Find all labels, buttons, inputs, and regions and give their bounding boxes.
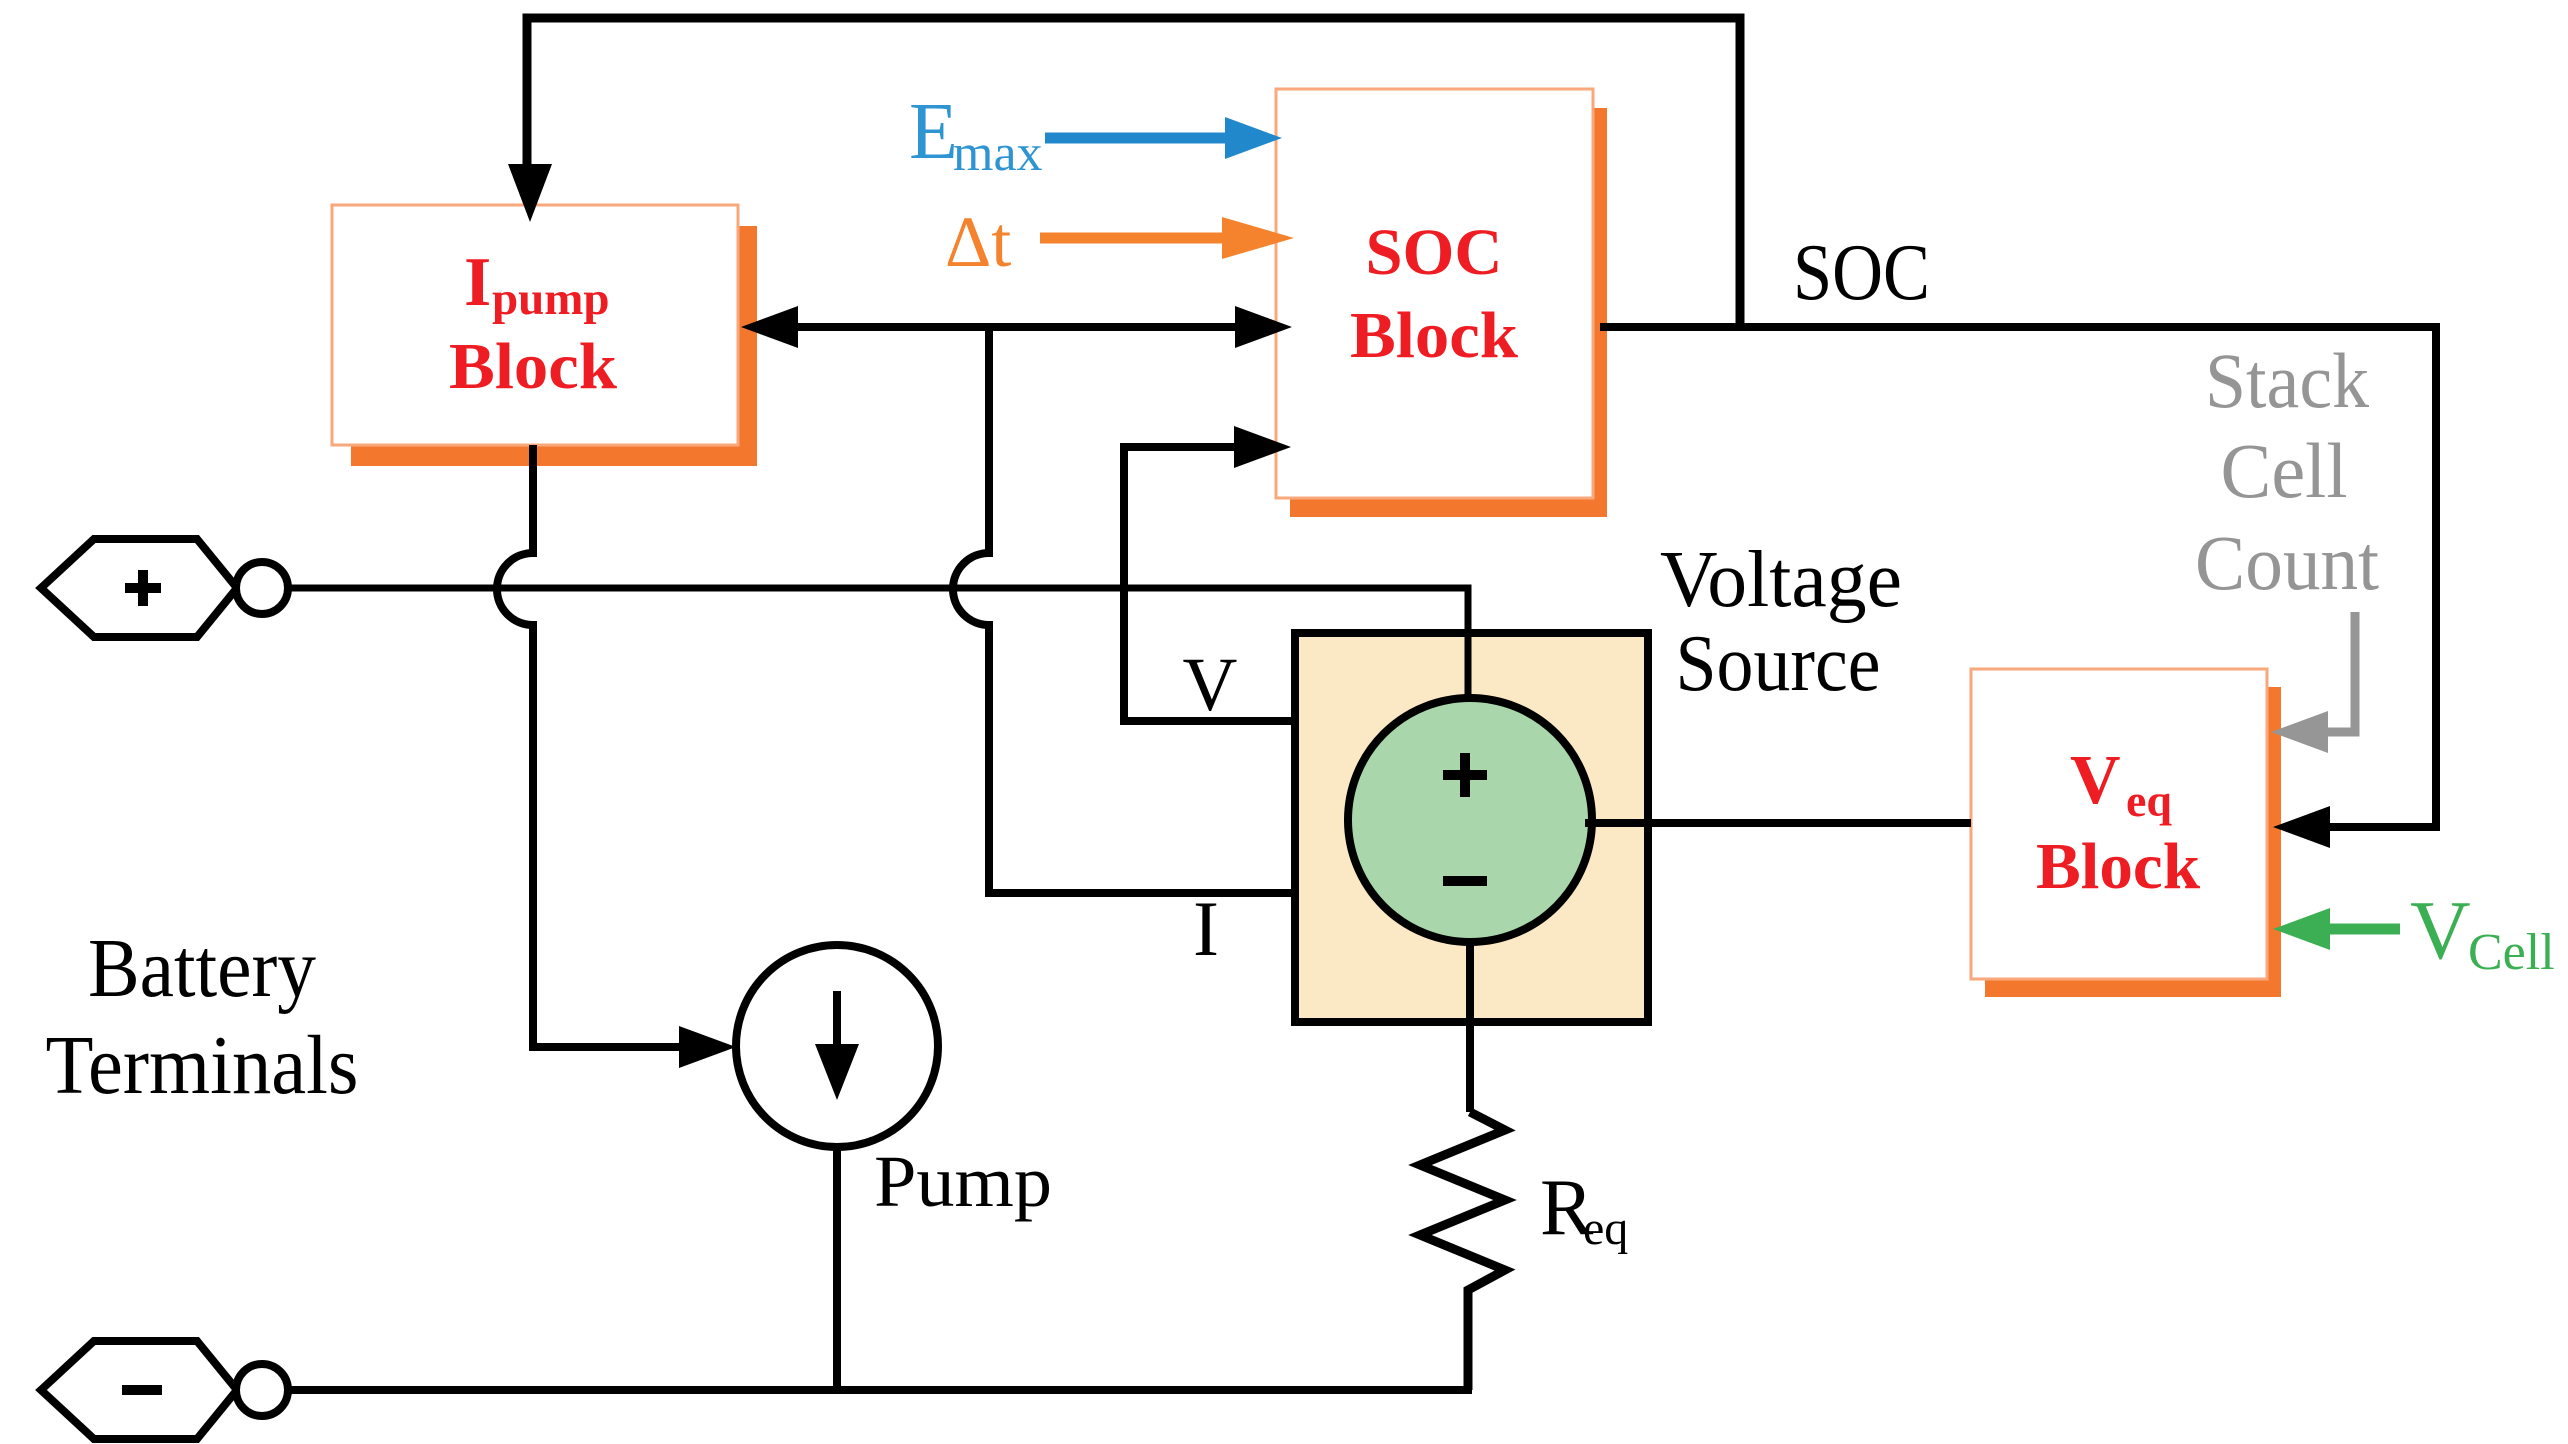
svg-text:Terminals: Terminals [46,1019,359,1112]
svg-text:V: V [2070,742,2121,819]
svg-text:I: I [464,244,491,321]
voltage source: box [1295,633,1648,1022]
port -: minus sign [122,1385,162,1395]
voltage source: plus sign [1443,753,1487,797]
arrowhead: into pump left side [679,1026,736,1068]
wire: SOC output to Veq block [1600,327,2436,827]
block Ipump: box [332,205,738,445]
wire: Ipump bottom stem to pump (with hop over + rail) [497,445,679,1047]
svg-text:Battery: Battery [88,922,316,1015]
svg-text:pump: pump [492,273,610,325]
arrow Emax (blue) [1045,133,1225,144]
resistor Req: zigzag [1420,1112,1505,1390]
port +: hexagon [41,539,237,637]
port -: connector circle [236,1364,288,1416]
svg-text:I: I [1193,885,1219,972]
svg-text:V: V [1183,643,1238,727]
arrow stack cell count (gray) [2327,612,2355,732]
block SOC: shadow [1290,108,1607,517]
wire: pump bottom stem [833,1147,841,1390]
arrowhead: into Ipump top [508,164,552,222]
svg-text:eq: eq [2126,775,2172,826]
arrowhead: into SOC left side (current input) [1235,306,1292,348]
svg-text:Pump: Pump [874,1141,1052,1222]
block SOC: box [1276,89,1593,498]
wire: double-headed between Ipump and SOC [795,323,1238,331]
port -: hexagon [41,1341,237,1439]
svg-text:Block: Block [2036,830,2200,903]
svg-text:Δt: Δt [945,202,1011,282]
pump: circle [736,945,938,1147]
port +: plus sign [125,570,161,606]
wire: source bottom to resistor [1466,942,1474,1112]
voltage source: circle [1348,698,1592,942]
port +: connector circle [236,562,288,614]
svg-text:Block: Block [449,330,617,403]
svg-text:Count: Count [2195,519,2379,606]
svg-text:E: E [909,88,958,176]
arrow Vcell (green) [2330,924,2400,935]
svg-text:max: max [953,125,1043,182]
svg-text:Stack: Stack [2205,337,2369,424]
wire: V measurement loop from source to SOC [1124,447,1295,721]
svg-text:Block: Block [1350,299,1518,372]
arrowhead: into Ipump right side [741,306,798,348]
svg-text:V: V [2410,884,2471,977]
block Veq: box [1971,669,2267,979]
block Ipump: shadow [351,226,757,466]
svg-text:SOC: SOC [1793,229,1930,317]
svg-text:Cell: Cell [2221,427,2348,514]
svg-text:Cell: Cell [2468,924,2555,981]
wire: source output to Veq block [1585,819,1971,827]
block Veq: shadow [1985,687,2281,997]
svg-text:SOC: SOC [1366,216,1503,289]
arrow dt (orange) [1040,233,1222,244]
wire: junction drop to I input of source (with hop over + rail) [953,327,1295,893]
wire: positive rail from + terminal to source top [288,588,1468,705]
svg-text:Source: Source [1676,620,1881,708]
wire: top feedback loop from SOC output to Ipump top [527,18,1740,327]
svg-text:Voltage: Voltage [1660,536,1902,624]
wire: bottom negative rail [288,1386,1472,1394]
pump: inner arrow shaft [833,991,841,1047]
arrowhead: V wire into SOC left side [1234,426,1291,468]
pump: inner arrowhead [815,1044,859,1100]
arrowhead: SOC wire into Veq right side [2273,806,2330,848]
voltage source: minus sign [1443,876,1487,886]
svg-text:eq: eq [1583,1202,1628,1255]
